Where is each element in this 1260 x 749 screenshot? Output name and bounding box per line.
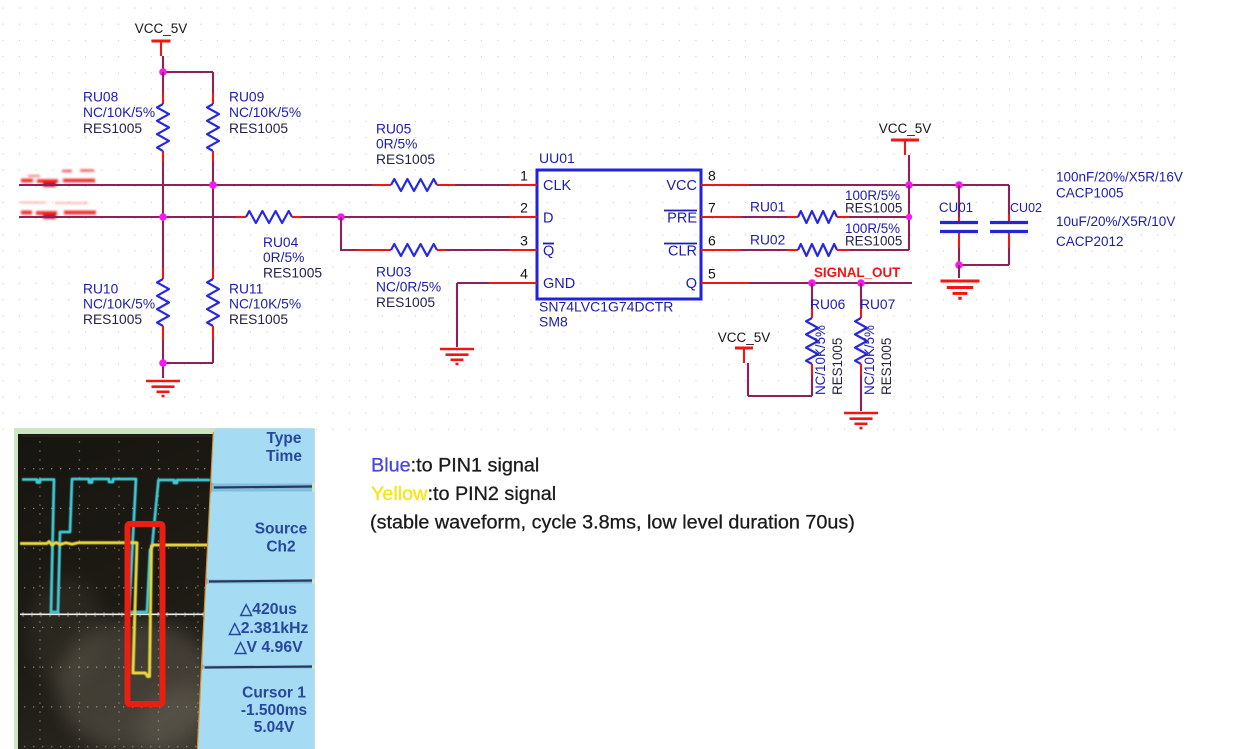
node junction RU06 tap: [808, 279, 816, 287]
scope dark screen: [18, 434, 214, 749]
node junction RU07 tap: [857, 279, 865, 287]
svg-text:2: 2: [520, 200, 528, 216]
svg-text:RES1005: RES1005: [229, 121, 288, 136]
svg-text:Blue:to PIN1 signal: Blue:to PIN1 signal: [371, 455, 539, 477]
resistor RU06 NC/10K/5% RES1005 (vertical): [806, 283, 846, 396]
pin 7 PRE: [664, 200, 741, 227]
menu separator 3: [205, 667, 312, 668]
svg-text:SN74LVC1G74DCTR: SN74LVC1G74DCTR: [539, 299, 673, 315]
svg-text:RES1005: RES1005: [83, 312, 142, 327]
svg-text:NC/10K/5%: NC/10K/5%: [83, 297, 155, 312]
power VCC_5V (top right): [879, 121, 932, 155]
capacitor CU01 100nF: [939, 185, 978, 265]
svg-text:RU04: RU04: [263, 235, 299, 250]
ground (below RU10/RU11): [146, 381, 180, 396]
node junction RU09/row1: [209, 181, 217, 189]
svg-text:CACP1005: CACP1005: [1056, 185, 1124, 200]
capacitor CU02 10uF: [959, 201, 1042, 265]
resistor RU03 NC/0R/5% RES1005: [356, 244, 509, 310]
node junction row2/branch: [337, 213, 345, 221]
svg-text:D: D: [543, 211, 553, 227]
scope bezel edge: [198, 432, 214, 749]
node junction CU01 top: [955, 181, 963, 189]
svg-text:RES1005: RES1005: [845, 200, 902, 215]
node junction RU01/vertical: [906, 214, 912, 220]
wire net row2 (to D): [19, 216, 509, 218]
svg-text:Type: Type: [266, 430, 301, 447]
svg-text:RU08: RU08: [83, 89, 119, 104]
svg-text:Source: Source: [255, 521, 308, 538]
svg-text:RES1005: RES1005: [830, 338, 845, 395]
svg-text:NC/10K/5%: NC/10K/5%: [813, 325, 828, 395]
svg-text:RU11: RU11: [229, 282, 263, 297]
resistor RU01 100R/5% RES1005: [741, 188, 909, 223]
yellow waveform (PIN2): [20, 542, 210, 677]
svg-text:1: 1: [520, 168, 528, 184]
pin 3 Qbar: [509, 233, 554, 260]
svg-text:RES1005: RES1005: [879, 338, 894, 395]
node junction VCC drop: [905, 181, 913, 189]
svg-text:NC/10K/5%: NC/10K/5%: [229, 297, 301, 312]
wire GND pin4 to ground: [457, 283, 489, 347]
wire bottom join RU10/RU11: [163, 340, 213, 378]
menu button Delta readouts: [205, 586, 312, 663]
pin 8 VCC: [666, 168, 749, 195]
svg-text:RU01: RU01: [750, 200, 785, 215]
resistor RU05 0R/5% RES1005: [372, 122, 455, 192]
svg-text:NC/10K/5%: NC/10K/5%: [862, 325, 877, 395]
svg-text:RU06: RU06: [810, 297, 846, 312]
svg-text:SIGNAL_OUT: SIGNAL_OUT: [814, 265, 901, 280]
node junction cap bottoms: [955, 261, 963, 269]
svg-text:GND: GND: [543, 276, 575, 292]
svg-text:RES1005: RES1005: [376, 152, 435, 167]
svg-text:SM8: SM8: [539, 314, 568, 330]
pin 6 CLR: [664, 233, 741, 260]
menu button Cursor 1: [201, 671, 313, 749]
pin 4 GND: [489, 266, 575, 293]
white cursor line: [20, 613, 211, 615]
svg-text:Ch2: Ch2: [266, 539, 295, 556]
resistor RU11 NC/10K/5% RES1005: [207, 268, 301, 340]
wire caps to ground: [958, 265, 960, 278]
svg-text:RU03: RU03: [376, 265, 412, 280]
svg-text:RES1005: RES1005: [229, 312, 288, 327]
node junction RU08/row2: [159, 213, 167, 221]
svg-text:CLR: CLR: [668, 244, 697, 260]
svg-text:5.04V: 5.04V: [254, 719, 295, 736]
svg-text:4: 4: [520, 266, 528, 282]
svg-text:RES1005: RES1005: [263, 265, 322, 280]
svg-text:6: 6: [708, 233, 716, 249]
svg-text:RES1005: RES1005: [376, 295, 435, 310]
net label (redacted) row 2: [20, 203, 96, 217]
svg-text:PRE: PRE: [667, 211, 697, 227]
svg-text:7: 7: [708, 200, 716, 216]
wire RU08 column: [162, 72, 164, 268]
svg-text:RU02: RU02: [750, 233, 785, 248]
svg-text:△420us: △420us: [239, 601, 297, 618]
svg-text:VCC_5V: VCC_5V: [135, 21, 188, 36]
svg-text:Yellow:to PIN2 signal: Yellow:to PIN2 signal: [371, 483, 556, 505]
resistor RU04 0R/5% RES1005: [236, 211, 322, 280]
svg-text:Time: Time: [266, 448, 302, 465]
svg-text:VCC_5V: VCC_5V: [718, 330, 771, 345]
power VCC_5V (lower): [718, 330, 771, 363]
red highlight box: [128, 524, 163, 704]
wire VCC_5V to RU08/RU09 top: [163, 56, 213, 93]
svg-text:NC/10K/5%: NC/10K/5%: [229, 105, 301, 120]
svg-text:RES1005: RES1005: [845, 233, 902, 248]
svg-text:Q: Q: [543, 244, 554, 260]
svg-text:RU09: RU09: [229, 89, 265, 104]
svg-text:VCC: VCC: [666, 178, 697, 194]
resistor RU09 NC/10K/5% RES1005: [207, 89, 301, 162]
resistor RU08 NC/10K/5% RES1005: [83, 89, 169, 162]
wire net VCC row (pin 8): [749, 185, 1009, 214]
ground (below RU07): [844, 413, 878, 428]
svg-text:NC/10K/5%: NC/10K/5%: [83, 105, 155, 120]
power VCC_5V (top left): [135, 21, 188, 56]
svg-text:CU02: CU02: [1010, 201, 1042, 215]
net label (redacted) row 1: [21, 171, 95, 185]
ground (capacitors): [940, 281, 979, 298]
scope menu background: [199, 432, 313, 749]
resistor RU07 NC/10K/5% RES1005 (vertical): [855, 283, 895, 411]
menu separator 2: [209, 581, 312, 582]
wire branch to RU03: [341, 217, 356, 250]
svg-text:CU01: CU01: [939, 200, 973, 215]
pin 5 Q: [686, 266, 749, 293]
cyan waveform (PIN1): [22, 479, 210, 612]
svg-text:RES1005: RES1005: [83, 121, 142, 136]
svg-text:RU05: RU05: [376, 122, 412, 137]
wire RU01/RU02 to VCC net: [908, 185, 910, 250]
menu button Source/Ch2: [209, 494, 312, 577]
svg-text:Q: Q: [686, 276, 697, 292]
svg-text:RU07: RU07: [860, 297, 895, 312]
op-amp/IC UU01 SN74LVC1G74DCTR body: [537, 150, 701, 330]
scope graticule dots: [22, 436, 213, 749]
svg-text:Cursor 1: Cursor 1: [242, 685, 306, 702]
svg-text:0R/5%: 0R/5%: [263, 250, 304, 265]
wire VCC to pin8 net: [908, 155, 910, 185]
resistor RU10 NC/10K/5% RES1005: [83, 268, 169, 340]
svg-text:△V 4.96V: △V 4.96V: [233, 639, 303, 656]
resistor RU02 100R/5% RES1005: [741, 221, 909, 256]
svg-text:VCC_5V: VCC_5V: [879, 121, 932, 136]
svg-text:UU01: UU01: [539, 150, 575, 166]
svg-text:0R/5%: 0R/5%: [376, 137, 417, 152]
svg-text:CLK: CLK: [543, 178, 572, 194]
svg-text:3: 3: [520, 233, 528, 249]
svg-text:8: 8: [708, 168, 716, 184]
svg-text:10uF/20%/X5R/10V: 10uF/20%/X5R/10V: [1056, 214, 1175, 229]
svg-text:100nF/20%/X5R/16V: 100nF/20%/X5R/16V: [1056, 170, 1183, 185]
oscilloscope photo: [14, 428, 315, 749]
wire net row1 (to CLK): [19, 184, 509, 186]
svg-text:CACP2012: CACP2012: [1056, 234, 1124, 249]
svg-text:NC/0R/5%: NC/0R/5%: [376, 280, 441, 295]
wire RU09 column: [212, 162, 214, 268]
svg-text:△2.381kHz: △2.381kHz: [228, 620, 309, 637]
pin 1 CLK: [509, 168, 572, 195]
node junction bottom: [159, 359, 167, 367]
menu button Type/Time: [214, 430, 312, 481]
menu separator 1: [214, 487, 312, 488]
svg-text:-1.500ms: -1.500ms: [241, 702, 307, 719]
ground (pin 4): [440, 349, 474, 364]
wire net SIGNAL_OUT (pin 5): [749, 282, 912, 284]
svg-text:(stable waveform, cycle 3.8ms,: (stable waveform, cycle 3.8ms, low level…: [370, 512, 855, 534]
svg-text:RU10: RU10: [83, 282, 119, 297]
pin 2 D: [509, 200, 553, 227]
svg-text:5: 5: [708, 266, 716, 282]
node junction VCC/RU08: [159, 68, 167, 76]
oscilloscope photo frame: [14, 428, 315, 749]
